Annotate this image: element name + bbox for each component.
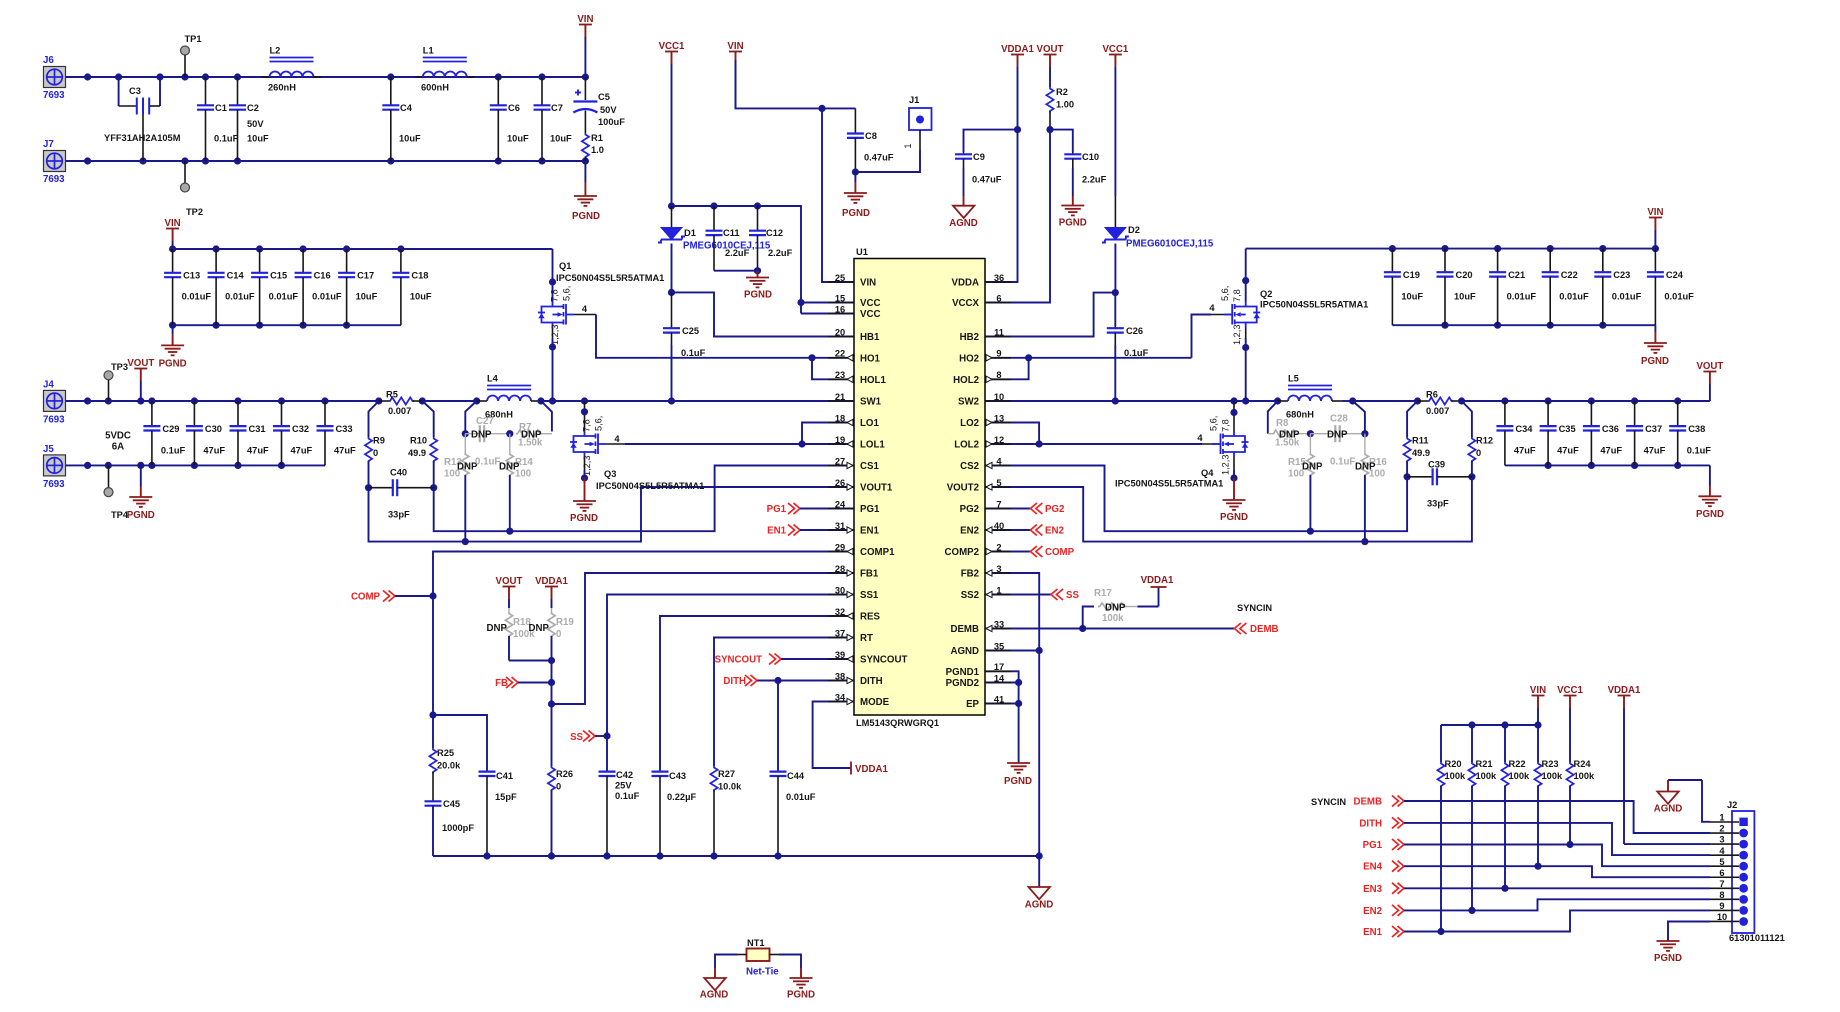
svg-text:61301011121: 61301011121 — [1729, 933, 1785, 943]
svg-text:15: 15 — [835, 293, 845, 303]
diode D2 — [1102, 196, 1214, 293]
svg-text:VCC: VCC — [860, 309, 880, 320]
capacitor C34 — [1496, 401, 1536, 465]
wire AGND pin35 — [985, 650, 1039, 652]
power flag VCC1 (R24) — [1557, 685, 1583, 762]
wire top input rail — [66, 73, 590, 80]
svg-text:47uF: 47uF — [1600, 446, 1622, 456]
resistor R8 (DNP) — [1268, 401, 1311, 449]
svg-text:4: 4 — [996, 456, 1002, 466]
svg-text:R11: R11 — [1412, 436, 1429, 446]
signal SYNCOUT chevron — [715, 654, 854, 666]
ground PGND (C34 bank) — [1696, 465, 1724, 520]
ground AGND (bus) — [1025, 856, 1054, 911]
svg-text:39: 39 — [835, 650, 845, 660]
pin 20 HB1 — [828, 327, 880, 343]
svg-text:0: 0 — [1476, 448, 1481, 458]
svg-text:4: 4 — [1209, 303, 1215, 313]
wire C13 bank bottom rail — [169, 322, 401, 329]
transistor Q2 — [1209, 249, 1368, 345]
svg-text:AGND: AGND — [1025, 900, 1054, 911]
svg-text:0.1uF: 0.1uF — [475, 457, 500, 468]
svg-text:PGND: PGND — [572, 211, 600, 222]
svg-text:L5: L5 — [1288, 374, 1299, 384]
svg-text:10uF: 10uF — [410, 292, 432, 302]
svg-text:100k: 100k — [1102, 613, 1124, 624]
svg-text:HO1: HO1 — [860, 353, 881, 364]
ground PGND (EP) — [1004, 763, 1032, 787]
pin 30 SS1 — [828, 585, 879, 601]
svg-text:C40: C40 — [390, 468, 407, 478]
pin 11 HB2 — [960, 327, 1011, 343]
svg-text:C13: C13 — [183, 271, 200, 281]
pin 7 PG2 — [960, 499, 1011, 515]
svg-text:680nH: 680nH — [1286, 410, 1314, 420]
svg-text:L2: L2 — [270, 46, 281, 56]
svg-text:C16: C16 — [314, 271, 331, 281]
svg-text:30: 30 — [835, 585, 845, 595]
svg-text:EN2: EN2 — [1363, 906, 1382, 917]
test point TP4 — [104, 465, 129, 520]
svg-text:R17: R17 — [1094, 588, 1112, 599]
svg-text:C8: C8 — [865, 131, 877, 141]
ground PGND (C19 bank) — [1641, 325, 1669, 367]
svg-text:C12: C12 — [766, 228, 783, 238]
svg-text:J6: J6 — [43, 55, 54, 66]
svg-text:SS: SS — [570, 732, 583, 743]
power flag VDDA1 (R17) — [1141, 575, 1174, 587]
capacitor C10 — [1050, 130, 1107, 196]
pin 25 VIN — [828, 273, 876, 289]
pin 32 RES — [828, 607, 880, 623]
svg-text:J2: J2 — [1727, 800, 1737, 810]
svg-text:C43: C43 — [669, 771, 686, 781]
svg-text:VCC: VCC — [860, 298, 880, 309]
svg-text:2.2uF: 2.2uF — [1082, 175, 1107, 185]
pin 28 FB1 — [828, 564, 879, 580]
wire EN2 to J2 pin8 — [1404, 899, 1710, 910]
capacitor C4 — [382, 77, 421, 161]
wire 5V input rail (SW1 node row) — [66, 397, 379, 404]
svg-text:2.2uF: 2.2uF — [725, 248, 750, 258]
svg-text:47uF: 47uF — [291, 446, 313, 456]
svg-text:PGND: PGND — [570, 513, 598, 524]
signal FB chevron — [495, 677, 555, 689]
svg-text:600nH: 600nH — [421, 83, 449, 93]
capacitor C40 — [369, 468, 434, 520]
svg-text:SYNCIN: SYNCIN — [1237, 603, 1272, 613]
svg-text:VIN: VIN — [165, 218, 181, 229]
svg-text:1.00: 1.00 — [1056, 100, 1074, 110]
resistor R25 — [429, 715, 461, 801]
svg-text:10.0k: 10.0k — [718, 782, 742, 792]
connector J1 — [855, 95, 931, 172]
wire Q1 source to SW1 — [549, 328, 556, 402]
svg-text:VOUT: VOUT — [496, 576, 523, 587]
svg-text:IPC50N04S5L5R5ATMA1: IPC50N04S5L5R5ATMA1 — [556, 273, 664, 283]
svg-text:5,6,: 5,6, — [1220, 286, 1230, 301]
power flag VIN (C24) — [1647, 207, 1663, 249]
capacitor C14 — [208, 249, 255, 325]
svg-text:8: 8 — [996, 370, 1001, 380]
capacitor C28 (DNP) — [1307, 401, 1369, 468]
svg-text:VDDA1: VDDA1 — [1001, 44, 1034, 55]
wire VIN to C8 and pin 25 — [736, 60, 856, 282]
svg-text:47uF: 47uF — [1514, 446, 1536, 456]
svg-text:R8: R8 — [1276, 418, 1289, 429]
svg-text:6: 6 — [1719, 868, 1724, 878]
ground AGND (C9) — [949, 196, 978, 229]
resistor R20 — [1437, 725, 1466, 935]
svg-text:10: 10 — [1717, 912, 1727, 922]
svg-text:50V: 50V — [247, 119, 264, 129]
svg-text:C39: C39 — [1428, 460, 1445, 470]
svg-text:0.01uF: 0.01uF — [182, 292, 212, 302]
svg-text:VIN: VIN — [727, 41, 743, 52]
pin 39 SYNCOUT — [828, 650, 907, 666]
wire VCC pin15 — [801, 302, 854, 304]
svg-text:FB2: FB2 — [961, 569, 979, 580]
connector J2 — [1710, 800, 1785, 943]
signal COMP chevron — [351, 591, 433, 603]
svg-text:DNP: DNP — [487, 623, 508, 634]
svg-text:C37: C37 — [1645, 424, 1662, 434]
ground PGND (input filter) — [572, 161, 600, 222]
svg-text:VDDA1: VDDA1 — [1141, 575, 1174, 586]
pin 16 VCC — [828, 304, 880, 320]
signal EN1 chevron (J2) — [1363, 926, 1404, 938]
capacitor C42 — [599, 770, 640, 856]
svg-text:2: 2 — [996, 542, 1001, 552]
svg-text:C38: C38 — [1688, 424, 1705, 434]
power flag VDDA1 (MODE) — [851, 762, 888, 776]
svg-text:0.01uF: 0.01uF — [312, 292, 342, 302]
svg-text:HB2: HB2 — [960, 332, 979, 343]
svg-text:PMEG6010CEJ,115: PMEG6010CEJ,115 — [1126, 239, 1214, 250]
capacitor C20 — [1437, 249, 1477, 326]
svg-text:YFF31AH2A105M: YFF31AH2A105M — [104, 133, 181, 143]
svg-text:C33: C33 — [336, 424, 353, 434]
pin 36 VDDA — [952, 273, 1011, 289]
svg-text:C32: C32 — [292, 424, 309, 434]
svg-text:20.0k: 20.0k — [437, 761, 461, 771]
svg-text:15pF: 15pF — [495, 792, 517, 802]
inductor L1 — [415, 46, 474, 93]
resistor R17 (DNP) — [1083, 587, 1159, 629]
svg-text:VCC1: VCC1 — [1102, 44, 1128, 55]
pin 35 AGND — [950, 641, 1011, 657]
capacitor C17 — [338, 249, 378, 325]
power flag VOUT (right) — [1696, 361, 1723, 401]
svg-text:AGND: AGND — [950, 646, 979, 657]
svg-text:R22: R22 — [1509, 759, 1526, 769]
capacitor C5 (polarized) — [573, 77, 625, 133]
pin 5 VOUT2 — [947, 478, 1011, 494]
svg-text:VIN: VIN — [1530, 685, 1546, 696]
wire FB1 pin28 chain — [548, 573, 854, 766]
svg-text:IPC50N04S5L5R5ATMA1: IPC50N04S5L5R5ATMA1 — [1260, 300, 1368, 310]
svg-text:C20: C20 — [1456, 270, 1473, 280]
svg-text:27: 27 — [835, 456, 845, 466]
svg-text:C44: C44 — [787, 771, 805, 781]
pin 22 HO1 — [828, 349, 881, 365]
svg-text:VDDA: VDDA — [952, 278, 979, 289]
svg-text:10uF: 10uF — [507, 134, 529, 144]
capacitor C39 — [1407, 460, 1472, 509]
capacitor C25 — [663, 289, 706, 401]
svg-text:8: 8 — [1719, 890, 1724, 900]
svg-text:7,8: 7,8 — [1232, 289, 1242, 302]
svg-text:3: 3 — [996, 564, 1001, 574]
pin 29 COMP1 — [828, 542, 895, 558]
svg-text:FB1: FB1 — [860, 569, 879, 580]
resistor R21 — [1468, 725, 1497, 914]
svg-text:DNP: DNP — [1302, 462, 1323, 473]
svg-text:14: 14 — [994, 673, 1005, 683]
svg-text:100uF: 100uF — [598, 117, 625, 127]
svg-text:1: 1 — [1719, 813, 1724, 823]
svg-text:1: 1 — [903, 143, 913, 148]
capacitor C32 — [273, 401, 313, 465]
svg-text:TP2: TP2 — [186, 207, 203, 217]
svg-text:10: 10 — [994, 392, 1004, 402]
svg-text:Q1: Q1 — [559, 261, 571, 271]
svg-text:22: 22 — [835, 349, 845, 359]
svg-text:HO2: HO2 — [959, 353, 979, 364]
wire DITH to J2 pin4 — [1404, 823, 1710, 855]
wire HB2 pin11 — [985, 289, 1119, 337]
svg-text:38: 38 — [835, 671, 845, 681]
resistor R15 (DNP) — [1288, 434, 1323, 535]
svg-text:34: 34 — [835, 692, 846, 702]
wire EN1 to J2 pin9 — [1404, 910, 1710, 931]
net-tie NT1 — [737, 938, 779, 978]
svg-text:DNP: DNP — [529, 623, 550, 634]
svg-text:1.50k: 1.50k — [518, 438, 543, 449]
svg-text:VOUT: VOUT — [1037, 44, 1064, 55]
text SYNCIN (J2) — [1311, 797, 1346, 807]
wire VCC pin16 — [801, 313, 854, 315]
svg-text:6A: 6A — [112, 442, 124, 453]
svg-text:C30: C30 — [205, 424, 222, 434]
pin 38 DITH — [828, 671, 883, 687]
svg-text:SYNCIN: SYNCIN — [1311, 797, 1346, 807]
wire RES pin32 chain — [660, 616, 854, 772]
pin 24 PG1 — [828, 499, 880, 515]
svg-text:U1: U1 — [856, 247, 868, 257]
wire SS1 pin30 chain — [607, 595, 854, 772]
svg-text:SW2: SW2 — [958, 397, 979, 408]
resistor R5 — [375, 390, 426, 417]
pin 26 VOUT1 — [828, 478, 893, 494]
svg-text:DNP: DNP — [1327, 430, 1348, 441]
svg-text:0.1uF: 0.1uF — [1687, 446, 1712, 456]
svg-text:25V: 25V — [615, 781, 632, 791]
svg-text:DNP: DNP — [1355, 462, 1376, 473]
wire bottom input rail — [66, 157, 590, 164]
wire SW2/VOUT row L5 to R6 — [1353, 397, 1421, 404]
connector J6 — [43, 55, 66, 101]
pin 2 COMP2 — [945, 542, 1011, 558]
svg-text:PG2: PG2 — [960, 504, 979, 515]
svg-text:R21: R21 — [1476, 759, 1493, 769]
wire C19 bank top rail — [1246, 245, 1659, 252]
signal SS chevron — [570, 731, 611, 744]
svg-text:C25: C25 — [682, 326, 699, 336]
svg-text:Q2: Q2 — [1260, 289, 1272, 299]
wire NT1 left to AGND — [715, 955, 737, 969]
capacitor C6 — [490, 77, 529, 161]
svg-text:C23: C23 — [1613, 270, 1630, 280]
capacitor C45 — [425, 799, 475, 856]
svg-text:7693: 7693 — [43, 415, 65, 426]
svg-text:4: 4 — [1719, 846, 1725, 856]
svg-text:47uF: 47uF — [1644, 446, 1666, 456]
test point TP3 — [104, 362, 128, 401]
svg-text:47uF: 47uF — [247, 446, 269, 456]
svg-text:1000pF: 1000pF — [442, 823, 474, 833]
svg-text:J7: J7 — [43, 139, 54, 150]
svg-text:0: 0 — [556, 782, 561, 792]
signal DEMB chevron (J2) — [1353, 796, 1404, 808]
svg-text:R19: R19 — [556, 617, 574, 628]
svg-text:RT: RT — [860, 633, 873, 644]
svg-text:R9: R9 — [373, 436, 385, 446]
pin 15 VCC — [828, 293, 880, 309]
resistor R26 — [548, 766, 573, 856]
wire VDDA1 to pin36 — [985, 126, 1021, 282]
svg-text:R10: R10 — [410, 436, 427, 446]
capacitor C36 — [1583, 401, 1623, 465]
wire HOL2 pin8 — [985, 358, 1029, 380]
svg-text:VDDA1: VDDA1 — [1608, 685, 1641, 696]
svg-text:CS2: CS2 — [960, 461, 979, 472]
signal DEMB chevron (near IC) — [1234, 623, 1278, 635]
capacitor C7 — [534, 77, 573, 161]
ground AGND (J2 pin1) — [1654, 780, 1710, 822]
svg-text:SYNCOUT: SYNCOUT — [860, 655, 907, 666]
svg-text:VCC1: VCC1 — [1557, 685, 1583, 696]
svg-text:R2: R2 — [1056, 87, 1068, 97]
pin 13 LO2 — [960, 413, 1011, 429]
power flag VCC1 (D2) — [1102, 44, 1128, 196]
svg-text:PG2: PG2 — [1045, 504, 1064, 515]
svg-text:25: 25 — [835, 273, 845, 283]
signal DITH chevron — [723, 675, 854, 687]
pin 37 RT — [828, 628, 873, 644]
svg-text:R25: R25 — [437, 748, 454, 758]
svg-text:0.01uF: 0.01uF — [1664, 292, 1694, 302]
svg-text:37: 37 — [835, 628, 845, 638]
svg-text:0.1uF: 0.1uF — [615, 791, 640, 801]
svg-text:PG1: PG1 — [1363, 840, 1383, 851]
svg-text:0.47uF: 0.47uF — [972, 175, 1002, 185]
svg-text:50V: 50V — [600, 105, 617, 115]
ground PGND (J2 pin10) — [1654, 922, 1710, 965]
svg-text:C7: C7 — [551, 103, 563, 113]
svg-text:0.007: 0.007 — [1426, 406, 1449, 416]
svg-text:260nH: 260nH — [268, 83, 296, 93]
svg-text:2: 2 — [1719, 824, 1724, 834]
svg-text:DEMB: DEMB — [1250, 624, 1279, 635]
pin 41 EP — [966, 694, 1011, 710]
svg-text:C3: C3 — [129, 86, 141, 96]
svg-text:IPC50N04S5L5R5ATMA1: IPC50N04S5L5R5ATMA1 — [596, 481, 704, 491]
capacitor C13 — [164, 249, 211, 325]
wire Q3 gate to LOL1 — [607, 423, 855, 448]
svg-text:SYNCOUT: SYNCOUT — [715, 655, 762, 666]
svg-text:100k: 100k — [1476, 771, 1498, 781]
capacitor C24 — [1647, 249, 1694, 326]
svg-text:AGND: AGND — [1654, 804, 1683, 815]
text SYNCIN (near IC) — [1237, 603, 1272, 613]
svg-text:C15: C15 — [270, 271, 287, 281]
power flag VOUT (5V input) — [127, 358, 154, 401]
svg-text:PGND: PGND — [744, 290, 772, 301]
svg-text:TP3: TP3 — [111, 362, 128, 372]
pin 12 LOL2 — [954, 435, 1011, 451]
wire CS1 sense (R10 to pin27) — [434, 466, 854, 532]
signal DITH chevron (J2) — [1359, 817, 1404, 829]
capacitor C31 — [230, 401, 270, 465]
svg-text:HB1: HB1 — [860, 332, 880, 343]
wire C34 bank top rail (VOUT) — [1462, 397, 1710, 404]
diode D1 — [658, 206, 771, 292]
wire Q3 source — [581, 457, 588, 482]
signal COMP chevron (ch2) — [985, 546, 1075, 558]
svg-text:5: 5 — [996, 478, 1001, 488]
svg-text:VOUT2: VOUT2 — [947, 483, 979, 494]
svg-text:LOL2: LOL2 — [954, 440, 979, 451]
svg-text:PGND: PGND — [1004, 776, 1032, 787]
capacitor C35 — [1540, 401, 1580, 465]
resistor R22 — [1501, 725, 1530, 892]
wire DEMB to J2 pin2 — [1404, 801, 1710, 833]
svg-text:VOUT: VOUT — [127, 358, 154, 369]
svg-text:C6: C6 — [508, 103, 520, 113]
wire Q1 gate to HO1 — [575, 315, 855, 380]
svg-text:EN1: EN1 — [1363, 927, 1382, 938]
wire Q2 source to SW2 — [1242, 328, 1249, 402]
wire analog bottom bus — [433, 852, 1043, 859]
power flag VOUT (R18) — [496, 576, 523, 608]
svg-text:PGND: PGND — [1641, 356, 1669, 367]
svg-text:Net-Tie: Net-Tie — [746, 967, 779, 978]
pin 3 FB2 — [961, 564, 1011, 580]
wire COMP1 pin29 chain — [429, 552, 854, 719]
signal SS chevron (ch2) — [985, 589, 1079, 601]
svg-text:5,6,: 5,6, — [1209, 416, 1219, 431]
connector J5 — [43, 444, 66, 490]
pin 21 SW1 — [828, 392, 882, 408]
capacitor C21 — [1489, 249, 1536, 326]
power flag VDDA1 (C9) — [1001, 44, 1034, 130]
signal EN1 chevron — [767, 525, 854, 537]
svg-text:D1: D1 — [684, 228, 696, 238]
wire CS2 sense — [985, 466, 1407, 532]
svg-text:VIN: VIN — [860, 278, 876, 289]
wire RT pin37 chain — [714, 638, 854, 767]
capacitor C18 — [392, 249, 432, 325]
svg-text:24: 24 — [835, 499, 846, 509]
wire LOL2 pin12 to Q4 gate — [985, 440, 1221, 447]
capacitor C3 (feedthrough) — [104, 77, 181, 161]
svg-text:0.01uF: 0.01uF — [269, 292, 299, 302]
svg-text:10uF: 10uF — [399, 134, 421, 144]
svg-text:C21: C21 — [1508, 270, 1525, 280]
pin 27 CS1 — [828, 456, 879, 472]
svg-text:33: 33 — [994, 619, 1004, 629]
